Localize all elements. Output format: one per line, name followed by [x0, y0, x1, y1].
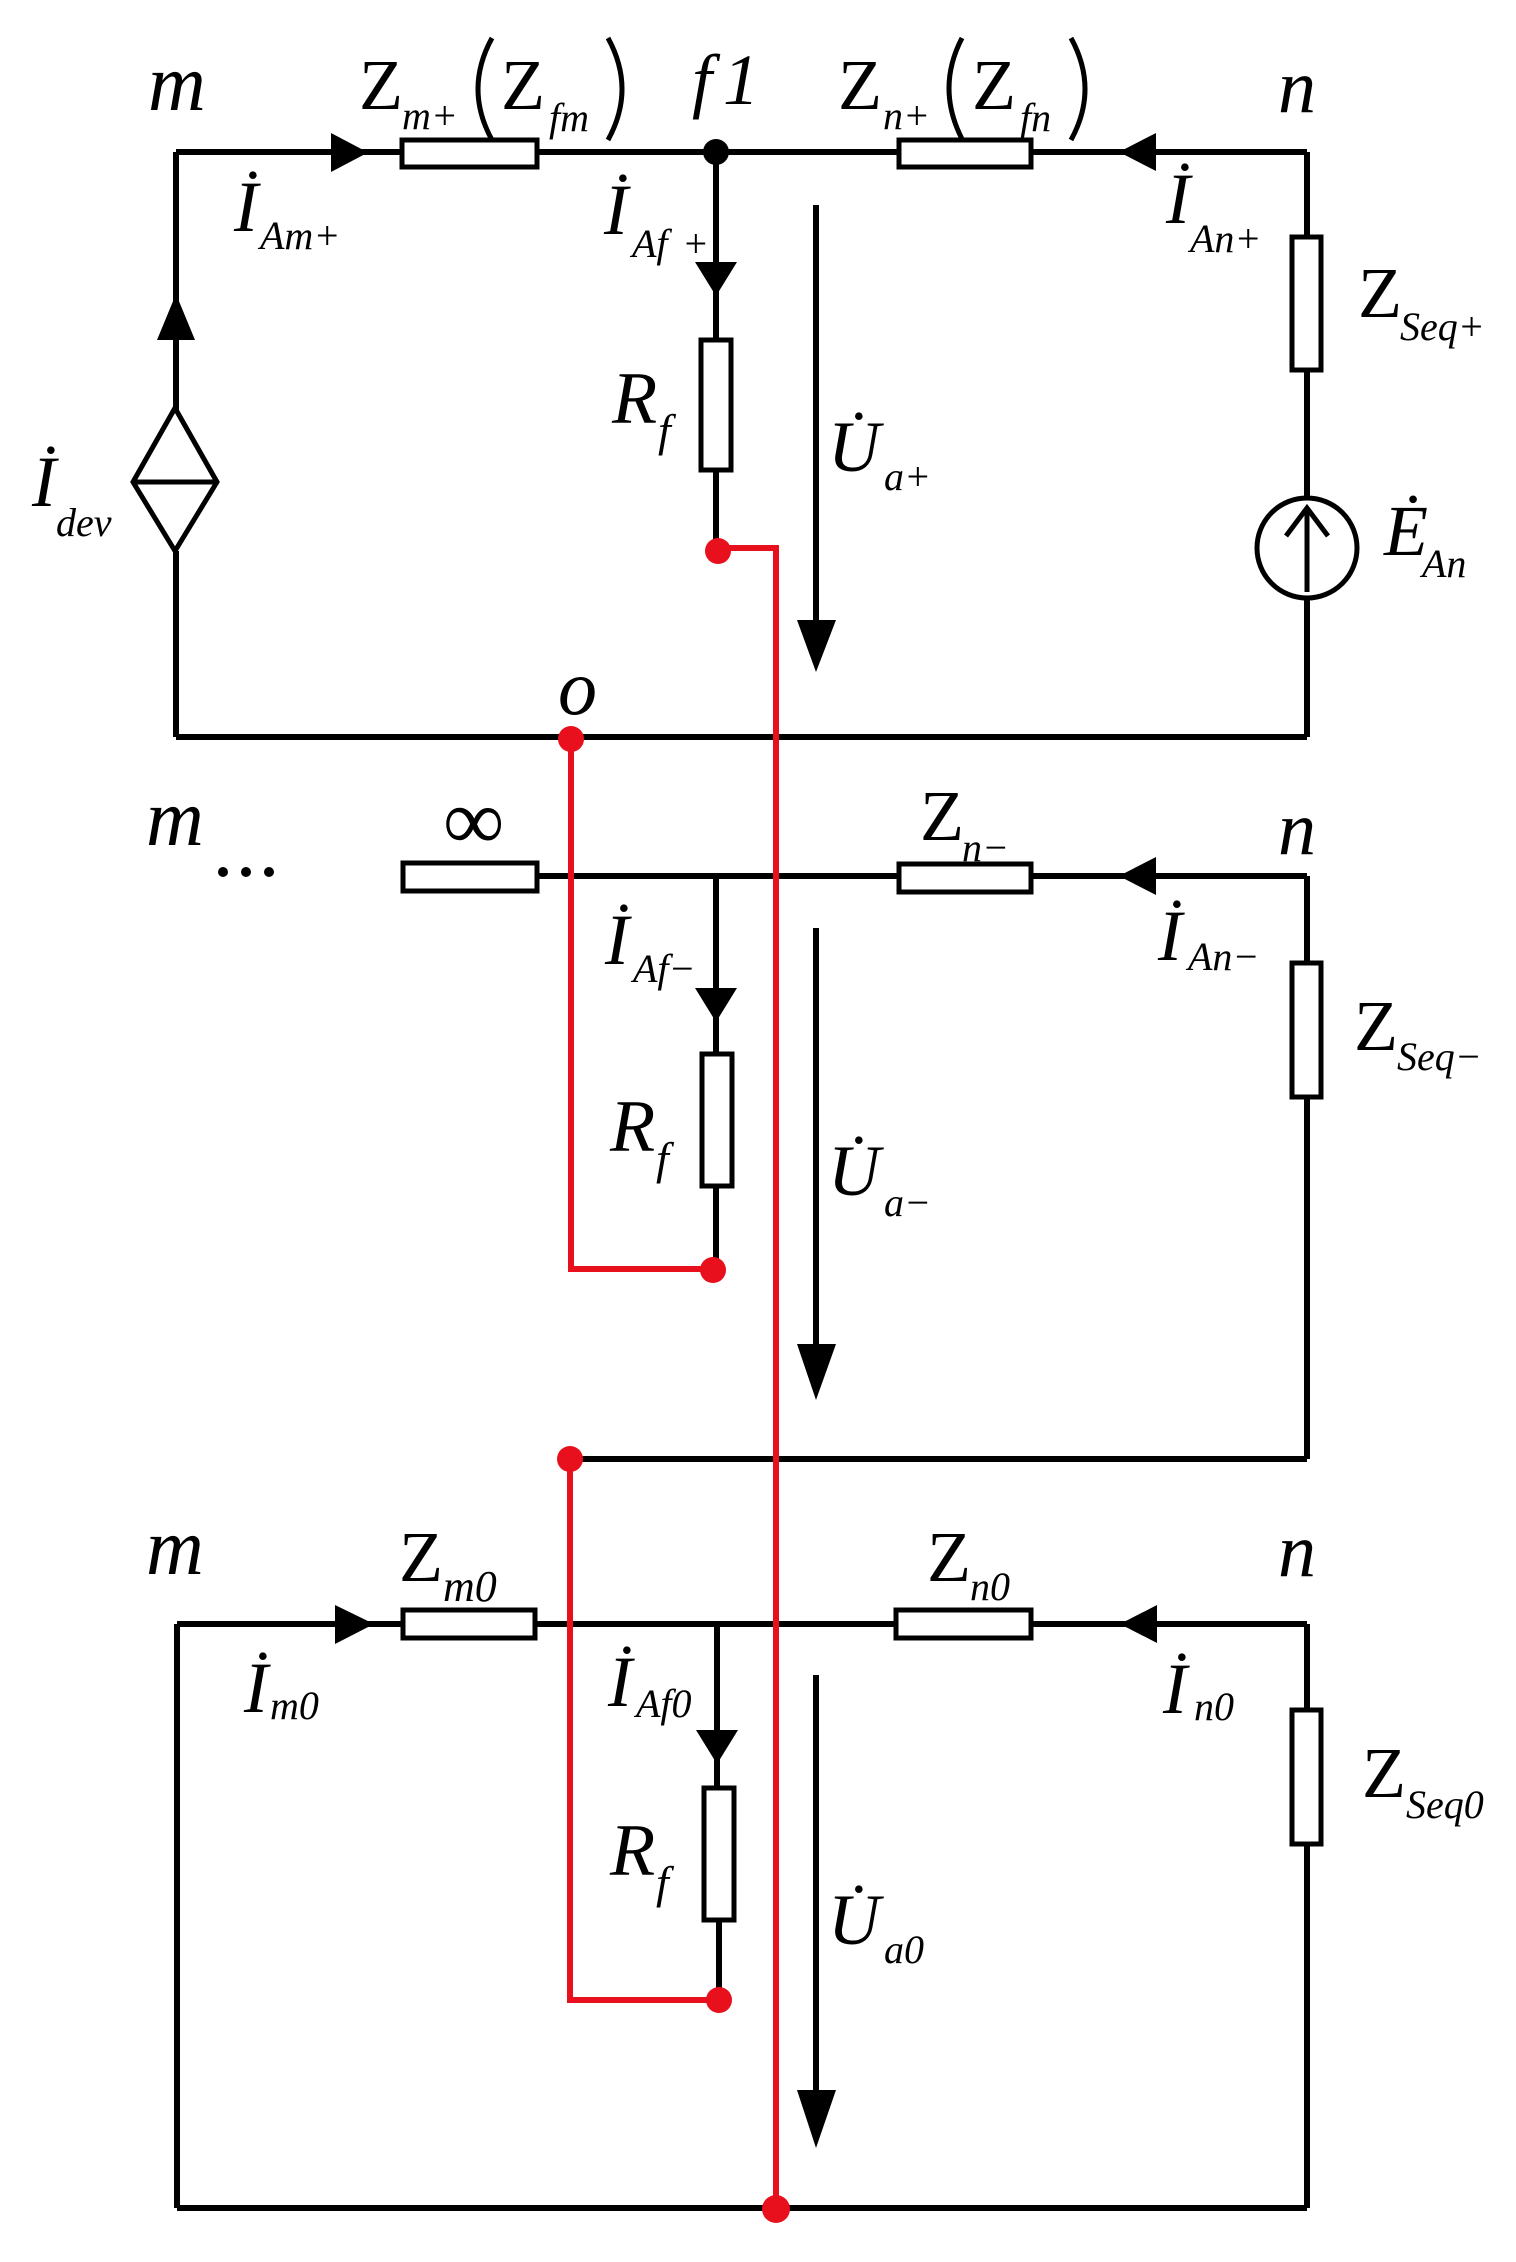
svg-text:n: n [1278, 45, 1316, 129]
svg-text:İ: İ [603, 170, 631, 250]
svg-text:An: An [1419, 541, 1466, 586]
svg-text:Z: Z [1358, 253, 1402, 333]
label ZSeq+ [1358, 253, 1485, 349]
svg-text:f: f [692, 40, 721, 120]
svg-text:a0: a0 [884, 1927, 924, 1972]
svg-text:m: m [146, 775, 204, 863]
red node below Rf (negative) [700, 1257, 726, 1283]
wire f1 to Zn+ [716, 149, 899, 155]
svg-text:f: f [656, 1133, 675, 1184]
svg-text:dev: dev [56, 500, 112, 545]
resistor Zm+ (Zfm) [402, 140, 537, 167]
wire ZSeq- to bottom corner [1304, 1097, 1310, 1459]
resistor ZSeq- [1292, 963, 1321, 1097]
label Rf (zero) [609, 1810, 675, 1908]
resistor Rf (negative) [702, 1054, 732, 1186]
svg-text:m: m [146, 1504, 204, 1592]
svg-text:R: R [609, 1086, 655, 1168]
label Ua- [828, 1131, 931, 1225]
svg-text:Af−: Af− [630, 946, 696, 991]
wire EAn to bottom corner [1304, 596, 1310, 737]
label IAm+ [233, 167, 340, 258]
wire infinity to corner n (negative) [537, 873, 1307, 879]
svg-text:Z: Z [1362, 1733, 1406, 1813]
current arrow Im0 [335, 1605, 374, 1644]
svg-text:U̇: U̇ [828, 407, 884, 487]
svg-text:İ: İ [604, 900, 632, 980]
wire m to Zm+ [176, 149, 402, 155]
voltage arrow Ua+ [797, 205, 836, 672]
current arrow IAm+ [331, 133, 368, 172]
svg-text:Z: Z [920, 776, 964, 856]
svg-text:U̇: U̇ [828, 1131, 884, 1211]
label Zn0 [927, 1517, 1010, 1609]
red wire to middle Rf node [568, 1266, 713, 1272]
bottom wire positive loop [176, 734, 1307, 740]
red wire down to zero network [567, 1459, 573, 2000]
svg-text:İ: İ [607, 1642, 635, 1722]
svg-text:Seq0: Seq0 [1406, 1782, 1484, 1827]
svg-text:Z: Z [399, 1517, 443, 1597]
svg-text:İ: İ [31, 442, 59, 522]
svg-text:n0: n0 [1194, 1684, 1234, 1729]
label IAf- [604, 900, 696, 991]
svg-text:Af: Af [629, 221, 672, 266]
label ZSeq0 [1362, 1733, 1484, 1827]
wire f1 down [713, 152, 719, 264]
current arrow IAn+ [1119, 133, 1156, 171]
resistor ZSeq0 [1292, 1710, 1321, 1844]
svg-text:∞: ∞ [443, 772, 504, 868]
wire Rf to red node (negative) [713, 1186, 719, 1262]
svg-text:m: m [148, 40, 206, 128]
svg-text:Z: Z [501, 45, 545, 125]
current arrow IAn- [1119, 857, 1156, 895]
left wire zero loop [174, 1624, 180, 2208]
label Zm+ (Zfm) [359, 38, 622, 140]
label IAn+ [1165, 159, 1261, 261]
label Zn+ (Zfn) [838, 38, 1085, 140]
wire n down to ZSeq+ [1304, 152, 1310, 240]
label Ua+ [828, 407, 931, 499]
label IAf0 [607, 1642, 692, 1726]
red node below Rf (positive) [705, 538, 731, 564]
label Ua0 [828, 1880, 924, 1972]
current arrow In0 [1120, 1605, 1157, 1643]
junction wire down (zero) [714, 1624, 720, 1732]
svg-text:İ: İ [1165, 159, 1193, 239]
wire Zn+ to corner n [1031, 149, 1307, 155]
wire arrow to Rf (zero) [714, 1758, 720, 1790]
svg-text:İ: İ [233, 167, 261, 247]
svg-text:n: n [1278, 1509, 1316, 1593]
svg-text:f: f [656, 1857, 675, 1908]
arrow on Idev branch [157, 294, 195, 340]
svg-text:n0: n0 [970, 1564, 1010, 1609]
resistor Zn+ (Zfn) [899, 140, 1031, 167]
source EAn circle [1257, 498, 1357, 598]
svg-text:Z: Z [1354, 986, 1398, 1066]
junction wire down (negative) [713, 876, 719, 990]
svg-text:Z: Z [359, 45, 403, 125]
label In0 [1162, 1649, 1234, 1729]
node o red dot [558, 726, 584, 752]
svg-text:İ: İ [243, 1648, 271, 1728]
wire arrow to Rf [713, 290, 719, 342]
resistor Zn- [899, 864, 1031, 892]
wire n down to ZSeq0 [1304, 1624, 1310, 1712]
top wire zero loop [177, 1621, 1307, 1627]
label Zm0 [399, 1517, 497, 1611]
red node on negative bottom wire [557, 1446, 583, 1472]
resistor Rf (zero) [704, 1788, 734, 1920]
voltage arrow Ua- [797, 928, 836, 1400]
label Zn- [920, 776, 1009, 870]
svg-text:Z: Z [927, 1517, 971, 1597]
label Rf (negative) [609, 1086, 675, 1184]
svg-text:m0: m0 [270, 1683, 319, 1728]
svg-text:Seq+: Seq+ [1400, 304, 1485, 349]
resistor Zm0 [403, 1610, 535, 1638]
label IAn- [1157, 896, 1259, 979]
svg-text:R: R [609, 1810, 655, 1892]
arrow IAf- [695, 988, 737, 1022]
svg-text:a: a [884, 1180, 904, 1225]
ellipsis dots [218, 867, 274, 877]
label Rf (positive) [611, 358, 677, 456]
label f1 [692, 40, 759, 120]
label Idev [31, 442, 112, 545]
node f1 [703, 139, 729, 165]
wire Idev to bottom [173, 551, 179, 737]
wire Rf to red node (zero) [716, 1920, 722, 1992]
red wire o down [568, 739, 574, 1269]
red wire to zero Rf node [567, 1997, 719, 2003]
svg-text:−: − [904, 1180, 931, 1225]
svg-text:1: 1 [723, 40, 759, 120]
svg-text:n: n [1278, 787, 1316, 871]
resistor Zn0 [896, 1610, 1031, 1638]
svg-text:U̇: U̇ [828, 1880, 884, 1960]
wire Rf to red node [713, 470, 719, 545]
svg-text:R: R [611, 358, 657, 440]
svg-text:n−: n− [962, 825, 1009, 870]
wire n down to ZSeq- [1304, 876, 1310, 965]
red node on zero bottom wire [762, 2195, 790, 2223]
svg-text:fn: fn [1020, 95, 1051, 140]
svg-text:Z: Z [972, 45, 1016, 125]
left wire m down to Idev [173, 152, 179, 410]
resistor ZSeq+ [1292, 237, 1321, 370]
svg-text:+: + [682, 221, 709, 266]
svg-text:n+: n+ [883, 93, 930, 138]
resistor Rf (positive) [701, 340, 731, 470]
svg-text:f: f [658, 405, 677, 456]
red vertical bus wire [773, 545, 779, 2209]
svg-text:İ: İ [1162, 1649, 1190, 1729]
svg-text:An+: An+ [1187, 216, 1261, 261]
bottom wire negative loop [570, 1456, 1307, 1462]
label ZSeq- [1354, 986, 1482, 1079]
wire ZSeq+ to EAn [1304, 370, 1310, 501]
dependent source Idev diamond [133, 408, 217, 551]
wire ZSeq0 to bottom corner [1304, 1844, 1310, 2208]
bottom wire zero loop [177, 2205, 1307, 2211]
arrow IAf0 [696, 1730, 738, 1764]
wire Zm+ to f1 [537, 149, 716, 155]
svg-text:Seq−: Seq− [1397, 1034, 1482, 1079]
svg-text:m0: m0 [443, 1562, 497, 1611]
svg-text:fm: fm [549, 95, 589, 140]
label EAn [1383, 491, 1466, 586]
wire arrow to Rf (negative) [713, 1016, 719, 1056]
svg-text:Z: Z [838, 45, 882, 125]
resistor infinity [403, 863, 537, 891]
svg-text:Am+: Am+ [257, 213, 340, 258]
red node below Rf (zero) [706, 1987, 732, 2013]
svg-text:o: o [558, 644, 597, 731]
svg-text:Af0: Af0 [633, 1681, 692, 1726]
svg-text:m+: m+ [402, 93, 458, 138]
source EAn arrow [1286, 508, 1328, 592]
svg-text:a+: a+ [884, 454, 931, 499]
red wire from positive Rf node to bus [718, 545, 778, 551]
label IAf+ [603, 170, 709, 266]
label Im0 [243, 1648, 319, 1728]
svg-text:An−: An− [1185, 934, 1259, 979]
svg-text:İ: İ [1157, 896, 1185, 976]
voltage arrow Ua0 [797, 1675, 836, 2148]
arrow IAf+ [695, 262, 737, 296]
